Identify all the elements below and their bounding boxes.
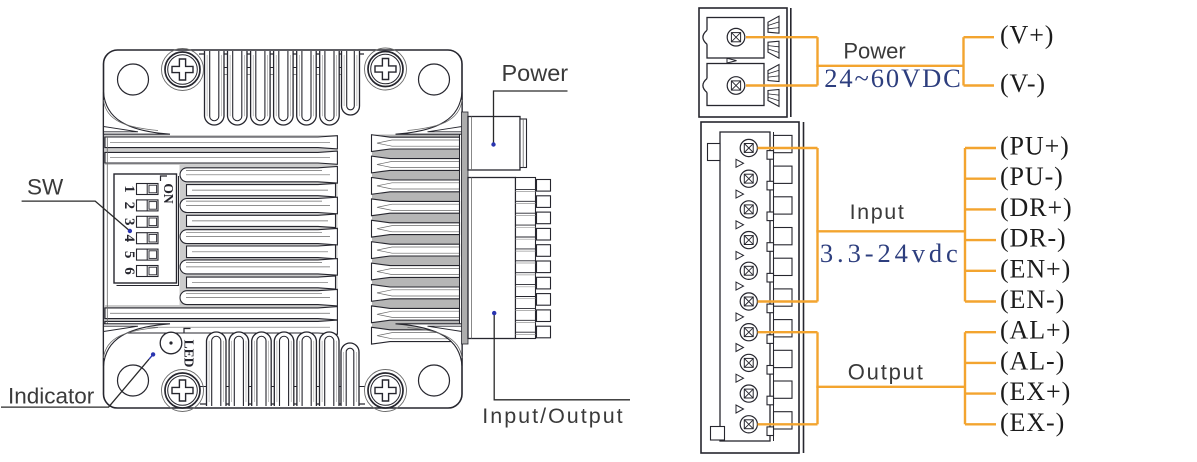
device input-output connector <box>468 178 551 339</box>
svg-text:(AL-): (AL-) <box>1000 346 1065 375</box>
wire branch DR- <box>965 239 996 241</box>
screw top-right <box>365 48 407 90</box>
wire branch PU+ <box>965 147 996 149</box>
wire input trunk <box>816 230 965 232</box>
wire output pin7 to bus <box>758 331 818 333</box>
wire branch EX- <box>965 423 996 425</box>
wire input pin1 to bus <box>758 147 818 149</box>
input-output pin header <box>701 122 804 453</box>
svg-text:LED: LED <box>182 340 197 368</box>
leader Indicator <box>1 352 155 407</box>
svg-text:(PU-): (PU-) <box>1000 162 1064 191</box>
svg-text:(EN+): (EN+) <box>1000 254 1071 283</box>
wire power left bus <box>816 37 818 85</box>
bottom vertical loop fins <box>200 332 365 406</box>
svg-text:1: 1 <box>121 185 137 193</box>
svg-text:6: 6 <box>121 267 137 275</box>
screw bottom-left <box>162 370 204 412</box>
leader Input/Output <box>492 311 630 400</box>
svg-text:(EN-): (EN-) <box>1000 285 1065 314</box>
wire input left bus <box>816 148 818 302</box>
leader SW <box>22 201 132 233</box>
wire branch DR+ <box>965 208 996 210</box>
device power connector <box>468 117 527 171</box>
power terminal block <box>699 8 791 117</box>
svg-text:(V+): (V+) <box>1000 21 1054 50</box>
svg-text:(DR-): (DR-) <box>1000 224 1067 253</box>
right horizontal heatsink fins <box>372 130 460 345</box>
svg-text:24~60VDC: 24~60VDC <box>824 63 963 93</box>
wire power pin1 to bus <box>746 36 818 38</box>
svg-text:ON: ON <box>161 183 176 204</box>
wire power trunk <box>816 65 963 67</box>
DIP switch block SW1 <box>114 174 179 286</box>
svg-text:(EX+): (EX+) <box>1000 377 1071 406</box>
svg-text:(V-): (V-) <box>1000 69 1046 98</box>
svg-text:(EX-): (EX-) <box>1000 408 1065 437</box>
svg-text:4: 4 <box>121 234 137 242</box>
screw top-left <box>162 49 204 91</box>
wire branch AL+ <box>965 331 996 333</box>
wire output right bus <box>964 332 966 424</box>
screw bottom-right <box>365 370 407 412</box>
wire branch AL- <box>965 362 996 364</box>
LED indicator <box>160 329 196 368</box>
device corner ears <box>104 92 463 366</box>
wire input pin6 to bus <box>758 300 818 302</box>
wire branch V- <box>964 84 995 86</box>
wire branch PU- <box>965 177 996 179</box>
top vertical loop fins <box>199 51 364 125</box>
mounting holes <box>118 64 450 396</box>
svg-text:Indicator: Indicator <box>8 384 95 409</box>
svg-text:Input/Output: Input/Output <box>482 404 624 428</box>
wire branch EN+ <box>965 270 996 272</box>
svg-text:SW: SW <box>27 175 64 200</box>
device body outline <box>104 50 463 408</box>
wire power pin2 to bus <box>746 84 818 86</box>
wire output pin10 to bus <box>758 423 818 425</box>
wire power right bus <box>962 37 964 85</box>
svg-text:(AL+): (AL+) <box>1000 316 1071 345</box>
svg-text:Output: Output <box>848 360 925 385</box>
wire branch EN- <box>965 300 996 302</box>
wire branch EX+ <box>965 392 996 394</box>
device connector flange <box>462 112 469 344</box>
wire output trunk <box>816 386 965 388</box>
svg-text:2: 2 <box>121 202 137 210</box>
svg-text:5: 5 <box>121 251 137 259</box>
svg-text:3: 3 <box>121 218 137 226</box>
left horizontal heatsink fins <box>105 135 338 334</box>
svg-text:3.3-24vdc: 3.3-24vdc <box>820 238 962 268</box>
svg-text:(PU+): (PU+) <box>1000 132 1070 161</box>
svg-text:Input: Input <box>850 200 906 224</box>
leader Power <box>491 91 567 147</box>
wire input right bus <box>964 148 966 302</box>
svg-text:Power: Power <box>843 38 905 63</box>
svg-text:Power: Power <box>502 60 569 86</box>
wire output left bus <box>816 332 818 424</box>
wire branch V+ <box>964 36 995 38</box>
svg-text:(DR+): (DR+) <box>1000 193 1073 222</box>
